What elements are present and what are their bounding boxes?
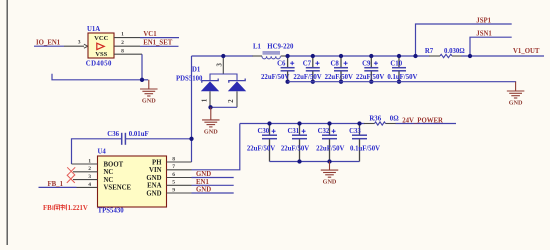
wire FB_1 — [39, 186, 77, 188]
junction JSN1 — [468, 54, 472, 58]
svg-text:EN1: EN1 — [196, 179, 209, 186]
wire rail to V1_OUT — [462, 55, 545, 57]
wire IO_EN1 — [34, 45, 64, 47]
svg-text:EN1_SET: EN1_SET — [143, 40, 173, 47]
wire JSN1 riser — [470, 37, 512, 56]
svg-text:0.1uF/50V: 0.1uF/50V — [387, 74, 417, 81]
svg-text:0.1uF/50V: 0.1uF/50V — [350, 145, 380, 152]
buffer triangle inside U1A — [97, 43, 104, 49]
svg-text:C31: C31 — [288, 128, 300, 135]
wire 24V_POWER — [396, 123, 457, 125]
junction C10 top — [397, 54, 401, 58]
svg-text:0.030Ω: 0.030Ω — [444, 48, 465, 55]
IC U4 body — [98, 156, 167, 207]
pin 3 of U1A — [64, 45, 84, 47]
junction C31 top — [297, 121, 301, 125]
svg-text:22uF/50V: 22uF/50V — [281, 145, 309, 152]
svg-text:4: 4 — [88, 182, 91, 188]
wire main output rail left segment — [192, 55, 254, 57]
svg-text:C8: C8 — [331, 61, 340, 68]
junction C32 bottom — [327, 159, 331, 163]
svg-text:8: 8 — [172, 156, 175, 162]
pin 8 of U1A — [114, 53, 142, 55]
svg-text:NC: NC — [104, 169, 114, 176]
junction C32 top — [327, 121, 331, 125]
svg-text:2: 2 — [88, 166, 91, 172]
svg-text:1.221V: 1.221V — [68, 205, 88, 212]
svg-text:ENA: ENA — [147, 183, 161, 190]
junction C6 top — [285, 54, 289, 58]
svg-text:22uF/50V: 22uF/50V — [261, 74, 289, 81]
capacitor C8 — [340, 56, 342, 67]
svg-text:5: 5 — [172, 180, 175, 186]
svg-text:C30: C30 — [258, 128, 270, 135]
svg-text:GND: GND — [204, 128, 218, 135]
svg-text:24V_POWER: 24V_POWER — [402, 117, 443, 124]
svg-text:22uF/50V: 22uF/50V — [247, 145, 275, 152]
svg-text:C36: C36 — [107, 131, 119, 138]
wire C36 right to PH riser — [126, 138, 192, 140]
junction C30 top — [267, 121, 271, 125]
svg-text:1: 1 — [121, 32, 124, 38]
svg-text:1: 1 — [88, 158, 91, 164]
junction C10 bottom — [397, 80, 401, 84]
junction D1 anode — [208, 105, 212, 109]
svg-text:3: 3 — [88, 174, 91, 180]
wire D1 anode bar — [210, 106, 237, 108]
sheet border line — [6, 0, 8, 245]
svg-text:C32: C32 — [318, 128, 330, 135]
svg-text:R7: R7 — [425, 48, 434, 55]
ground GND (D1) — [202, 107, 220, 127]
svg-text:GND: GND — [509, 100, 523, 107]
svg-text:D1: D1 — [192, 67, 201, 74]
pin 7 VIN — [167, 169, 192, 171]
pin 2 of U1A — [114, 45, 140, 47]
L1 pin leads — [253, 55, 263, 57]
wire EN1_SET — [140, 45, 179, 47]
junction at U1A ground — [140, 78, 144, 82]
pin 3 NC — [73, 179, 98, 181]
capacitor C31 — [299, 124, 301, 135]
wire cap bank ground rail — [288, 81, 516, 84]
svg-text:BOOT: BOOT — [104, 161, 124, 168]
svg-text:VC1: VC1 — [143, 31, 157, 38]
svg-text:FB_1: FB_1 — [48, 181, 64, 188]
capacitor C7 — [312, 56, 314, 67]
resistor R36 — [375, 122, 386, 125]
wire EN1 net — [192, 184, 234, 186]
svg-text:0.01uF: 0.01uF — [129, 131, 149, 138]
svg-text:IO_EN1: IO_EN1 — [36, 39, 61, 46]
capacitor C36 — [121, 133, 123, 145]
svg-text:VIN: VIN — [149, 167, 162, 174]
capacitor C9 — [370, 56, 372, 67]
junction C6 bottom — [285, 80, 289, 84]
wire JSP1 riser — [416, 24, 512, 56]
junction C33 top — [357, 121, 361, 125]
svg-text:7: 7 — [172, 164, 175, 170]
capacitor C10 — [398, 56, 400, 67]
svg-text:GND: GND — [196, 171, 211, 178]
svg-text:FB: FB — [43, 205, 52, 212]
junction C31 bottom — [297, 159, 301, 163]
svg-text:JSN1: JSN1 — [476, 31, 492, 38]
pin 1 of U1A — [114, 37, 140, 39]
pin 8 PH — [167, 161, 192, 163]
svg-text:TPS5430: TPS5430 — [98, 207, 125, 214]
svg-text:C9: C9 — [362, 61, 371, 68]
ground GND (cap bank) — [507, 82, 524, 98]
ground GND (C30-C33) — [321, 162, 339, 178]
svg-text:3: 3 — [78, 40, 81, 46]
junction D1 pin3 on rail — [221, 54, 225, 58]
no-connect X on pin 3 — [67, 175, 75, 183]
wire GND net (pin9) — [192, 192, 234, 194]
inductor L1 — [262, 52, 280, 59]
capacitor C6 — [287, 56, 289, 67]
svg-text:VSS: VSS — [95, 51, 107, 58]
junction C8 top — [339, 54, 343, 58]
diode D1 right element — [228, 81, 246, 91]
wire VIN to 24V rail — [192, 124, 240, 170]
wire from pin 8 down to ground net — [52, 54, 142, 80]
diode D1 pin 1 — [209, 91, 211, 107]
op-amp U1A body (CD4050 buffer) — [88, 33, 114, 58]
svg-text:PH: PH — [152, 159, 162, 166]
svg-text:2: 2 — [228, 99, 235, 103]
wire C36 left to BOOT — [72, 139, 122, 164]
svg-text:0Ω: 0Ω — [390, 116, 399, 123]
junction C36/PH — [189, 137, 193, 141]
junction C7 top — [311, 54, 315, 58]
svg-text:HC9-220: HC9-220 — [267, 44, 294, 51]
svg-text:GND: GND — [146, 175, 161, 182]
junction C7 bottom — [311, 80, 315, 84]
wire C30-C33 ground rail — [270, 161, 360, 163]
svg-text:JSP1: JSP1 — [476, 18, 491, 25]
resistor R7 — [440, 54, 452, 57]
svg-text:GND: GND — [196, 187, 211, 194]
capacitor C30 — [269, 124, 271, 135]
wire PH riser (rail to U4 PH) — [191, 56, 193, 162]
wire stub to ground symbol — [142, 79, 148, 81]
junction C8 bottom — [339, 80, 343, 84]
svg-text:VSENCE: VSENCE — [104, 185, 132, 192]
svg-text:6: 6 — [172, 172, 175, 178]
svg-text:8: 8 — [121, 48, 124, 54]
ground GND (U1A) — [140, 80, 158, 96]
svg-text:NC: NC — [104, 177, 114, 184]
wire main output rail right of L1 — [288, 55, 430, 57]
svg-text:C10: C10 — [390, 61, 402, 68]
svg-text:3: 3 — [217, 63, 224, 67]
svg-text:22uF/50V: 22uF/50V — [293, 74, 321, 81]
svg-text:L1: L1 — [253, 44, 262, 51]
svg-text:U4: U4 — [98, 148, 107, 155]
diode D1 pin 2 — [236, 91, 238, 107]
svg-text:R36: R36 — [369, 116, 381, 123]
svg-text:U1A: U1A — [87, 26, 100, 33]
svg-text:22uF/50V: 22uF/50V — [316, 145, 344, 152]
svg-text:C7: C7 — [303, 61, 312, 68]
svg-text:V1_OUT: V1_OUT — [513, 48, 540, 55]
pin 1 BOOT — [72, 163, 98, 165]
svg-text:1: 1 — [202, 98, 209, 102]
svg-text:9: 9 — [172, 187, 175, 193]
junction C9 top — [369, 54, 373, 58]
svg-text:CD4050: CD4050 — [86, 60, 112, 67]
diode D1 cathode bridge — [210, 74, 237, 80]
pin 4 VSENCE — [77, 186, 98, 188]
pin 2 NC — [73, 171, 98, 173]
svg-text:GND: GND — [142, 98, 156, 105]
svg-text:PDS5100: PDS5100 — [176, 75, 203, 82]
diode D1 left element — [201, 81, 219, 91]
svg-text:GND: GND — [323, 179, 337, 186]
pin 5 ENA — [167, 184, 192, 186]
wire VC1 — [140, 37, 179, 39]
junction JSP1 — [413, 54, 417, 58]
svg-text:2: 2 — [121, 40, 124, 46]
junction C9 bottom — [369, 80, 373, 84]
svg-text:22uF/50V: 22uF/50V — [356, 74, 384, 81]
svg-text:C33: C33 — [349, 128, 361, 135]
wire 24V rail — [240, 123, 365, 125]
svg-text:GND: GND — [146, 190, 161, 197]
svg-text:C6: C6 — [277, 61, 286, 68]
svg-text:22uF/50V: 22uF/50V — [325, 74, 353, 81]
capacitor C32 — [329, 124, 331, 135]
svg-text:VCC: VCC — [94, 35, 109, 42]
no-connect X on pin 2 — [67, 167, 75, 175]
wire GND net (pin6) — [192, 177, 234, 179]
diode D1 pin 3 — [222, 56, 224, 74]
pin 6 GND — [167, 177, 192, 179]
capacitor C33 — [359, 124, 361, 135]
pin 9 GND — [167, 192, 192, 194]
